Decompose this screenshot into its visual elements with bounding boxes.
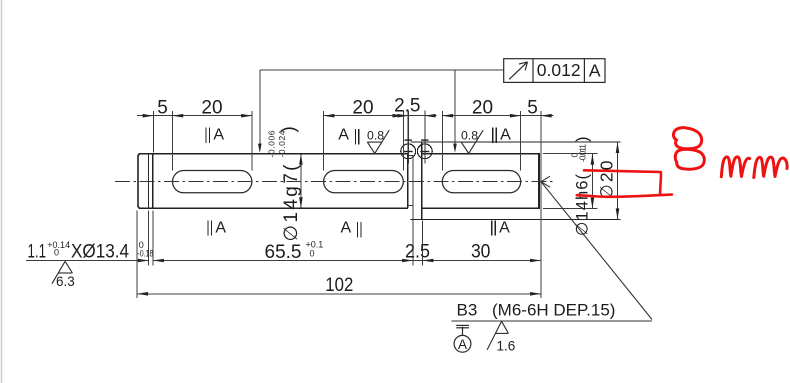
dia14h6 extension lines — [543, 154, 598, 209]
arrow dim5R right tip — [541, 114, 552, 118]
shaft right end face — [538, 154, 540, 208]
arrow dim20-2 right tip — [393, 114, 404, 118]
arrow dim65.5 left tip — [153, 259, 164, 263]
dia20 top arrowhead — [616, 142, 620, 153]
roughness 6.3 symbol — [52, 261, 72, 283]
30 dimension line — [423, 260, 541, 262]
dia14h6 top arrowhead — [591, 154, 595, 165]
svg-text:30: 30 — [471, 241, 491, 262]
center symbol circle 2 mid bar — [420, 151, 429, 153]
center symbol circle 2 stem — [424, 111, 426, 164]
shaft top outline right section — [422, 153, 540, 155]
arrow dim20-3 left tip — [442, 114, 453, 118]
dia20 arrowheads — [616, 142, 620, 219]
arrow dim2.5T right tip — [425, 114, 436, 118]
rotated label dia14g7 with tolerance — [267, 126, 303, 241]
red annotation bracket bottom stroke — [577, 195, 672, 197]
top dimension line y=115.7 — [137, 115, 554, 117]
top extension lines — [153, 111, 541, 298]
1.1 dim tail right — [153, 260, 164, 262]
svg-text:-0.006: -0.006 — [267, 130, 277, 157]
leader drop 2 arrowhead — [453, 144, 457, 153]
parallelism label bottom keyway2 — [340, 219, 360, 237]
parallelism label bottom keyway1 — [208, 219, 226, 236]
ext line x=172.5 — [172, 111, 174, 171]
svg-text:0.8: 0.8 — [367, 129, 384, 143]
svg-text:-0.011: -0.011 — [578, 144, 588, 162]
arrow dim20-3 right tip — [510, 114, 521, 118]
arrow dim2.5B/30 shared tip — [423, 259, 434, 263]
svg-text:2.5: 2.5 — [405, 242, 430, 263]
ext line x=442.3 — [441, 111, 443, 171]
middle relief groove recessed top — [408, 155, 413, 157]
svg-text:-0.18: -0.18 — [137, 248, 153, 258]
red handwritten mm — [721, 157, 750, 177]
leader drop arrowheads — [258, 144, 457, 153]
datum A symbol — [454, 325, 471, 352]
center symbol circle 2 — [417, 144, 432, 159]
ext x=412.9 — [412, 156, 414, 266]
svg-text:A: A — [338, 126, 349, 143]
feature control frame leader — [260, 70, 504, 151]
parallelism label top keyway3 — [493, 126, 511, 143]
centerline — [115, 181, 554, 183]
svg-text:20: 20 — [352, 97, 373, 118]
svg-text:2.5: 2.5 — [394, 96, 420, 117]
arrow dim20-1 right tip — [241, 114, 252, 118]
center symbol circle 1 mid bar — [404, 151, 413, 153]
top dimension arrowheads — [143, 114, 552, 118]
svg-text:5: 5 — [157, 97, 168, 118]
B3 leader arrow (open) at shaft end — [541, 176, 550, 187]
ext line x=153.4 — [152, 111, 154, 153]
svg-text:XØ13.4: XØ13.4 — [71, 241, 129, 262]
1.1 groove callout leader underline — [26, 260, 148, 262]
arrow dim30 right tip — [530, 259, 541, 263]
arrow dim5L right tip — [143, 114, 154, 118]
svg-text:0: 0 — [54, 247, 59, 257]
parallelism label top keyway1 — [206, 126, 224, 143]
center symbol circle 1 top bar — [405, 139, 412, 141]
parallelism label top keyway2 — [338, 126, 359, 144]
svg-text:1.1: 1.1 — [28, 241, 47, 262]
leader drop 1 — [259, 70, 261, 151]
svg-text:∅20: ∅20 — [597, 160, 617, 199]
arrow dim65.5/2.5B shared tip — [402, 259, 413, 263]
dia14h6 arrowheads — [591, 154, 595, 209]
leader drop 2 — [454, 70, 456, 151]
B3 underline — [451, 320, 652, 322]
shaft left end face — [138, 154, 140, 208]
keyway slot 2 — [324, 171, 404, 193]
svg-text:B3: B3 — [457, 300, 478, 319]
svg-text:∅14g7(: ∅14g7( — [281, 164, 302, 242]
dia14h6 bottom arrowhead — [591, 198, 595, 209]
65.5 dimension line — [153, 260, 413, 262]
svg-text:A: A — [499, 219, 510, 236]
svg-text:20: 20 — [201, 97, 222, 118]
svg-text:A: A — [215, 219, 226, 236]
ext line x=323.6 — [323, 111, 325, 171]
rotated label dia14h6 with tolerance — [570, 137, 592, 237]
svg-text:A: A — [213, 126, 224, 143]
dim 5 right segment — [521, 115, 554, 117]
left relief groove edge 2 — [152, 154, 154, 208]
runout arrow symbol — [509, 62, 527, 79]
ext x=422.6 — [422, 221, 424, 266]
leader drop 1 arrowhead — [258, 144, 262, 153]
dim 20 first keyway — [172, 115, 252, 117]
red handwritten 8 lower loop — [675, 149, 704, 169]
2.5 dimension line bottom — [398, 260, 433, 262]
center symbol circle 2 top bar — [421, 139, 428, 141]
long extension line x=540.9 — [540, 111, 542, 298]
roughness 0.8 symbol keyway2 — [367, 130, 389, 153]
B3 leader diagonal — [541, 182, 652, 320]
arrow dim20-2 left tip — [324, 114, 335, 118]
svg-text:5: 5 — [527, 97, 538, 118]
svg-text:A: A — [340, 219, 351, 236]
svg-text:0: 0 — [310, 249, 315, 259]
left relief groove edge 1 — [148, 154, 150, 208]
feature control frame (circular runout 0.012 A) — [504, 59, 605, 83]
middle relief groove recessed bottom — [408, 205, 413, 207]
dim 2.5 groove — [398, 115, 437, 117]
shaft top outline — [139, 153, 408, 155]
red annotation bracket right stroke — [659, 172, 662, 194]
arrow dim102 left tip — [137, 292, 148, 296]
dia 14g7 arrowheads — [299, 154, 303, 208]
dim 20 right keyway — [442, 115, 520, 117]
ext line x=520.7 — [520, 111, 522, 171]
svg-text:(M6-6H DEP.15): (M6-6H DEP.15) — [492, 300, 615, 319]
svg-text:∅14h6(: ∅14h6( — [574, 174, 592, 237]
red annotation bracket top stroke — [584, 170, 661, 172]
parallelism label bottom keyway3 — [492, 219, 510, 236]
dia20 bottom arrowhead — [616, 208, 620, 219]
shaft bottom outline — [139, 207, 408, 209]
ext x=137.2 for 102 — [136, 211, 138, 298]
arrow dim1.1 left tip — [138, 259, 149, 263]
bottom arrowheads — [137, 259, 541, 296]
bottom extension lines — [137, 156, 422, 298]
dia14g7 bottom arrowhead — [299, 197, 303, 208]
dia14h6 dimension line — [591, 154, 593, 209]
roughness 0.8 symbol keyway3 — [461, 130, 483, 153]
center symbol circle 1 stem — [407, 111, 409, 164]
keyway slot 1 — [173, 171, 252, 193]
center symbol circle 1 — [401, 144, 416, 159]
page left edge line — [1, 0, 3, 383]
svg-text:-0.024: -0.024 — [277, 130, 287, 157]
ext x=148.6 for 1.1 — [148, 211, 150, 266]
ext x=153.1 shared — [152, 211, 154, 266]
ext line x=251.9 — [251, 111, 253, 171]
svg-text:65.5: 65.5 — [265, 242, 302, 263]
shaft bottom outline right section — [422, 207, 540, 209]
hub left shoulder edge — [421, 142, 423, 219]
middle relief groove left edge — [407, 154, 409, 208]
svg-text:6.3: 6.3 — [56, 274, 75, 289]
svg-text:): ) — [574, 137, 592, 143]
dia20 dimension line — [617, 142, 619, 219]
svg-text:0.012: 0.012 — [537, 60, 581, 80]
dim 5 left segment — [137, 115, 173, 117]
svg-text:1.6: 1.6 — [497, 339, 516, 354]
arrow dim20-1 left tip — [172, 114, 183, 118]
svg-text:20: 20 — [472, 97, 493, 118]
svg-text:A: A — [500, 126, 511, 143]
arrow dim102 right tip — [530, 292, 541, 296]
svg-text:A: A — [589, 60, 601, 80]
dia14g7 top arrowhead — [299, 154, 303, 165]
svg-text:A: A — [458, 337, 467, 352]
dim 20 middle keyway — [324, 115, 404, 117]
ext line x=403.3 — [402, 111, 404, 171]
svg-text:): ) — [279, 126, 300, 132]
red handwritten 8 upper loop — [673, 128, 701, 149]
bottom dim row 1 y=260.5 — [26, 260, 541, 262]
svg-text:0.8: 0.8 — [461, 129, 478, 143]
arrow dim2.5T left tip — [397, 114, 408, 118]
phantom hub outline bottom (dia 20) — [411, 218, 621, 220]
roughness 1.6 symbol — [487, 321, 508, 350]
phantom hub outline top (dia 20) — [411, 141, 621, 143]
dia 14g7 dimension line — [300, 155, 302, 208]
keyway slot 3 — [442, 171, 520, 193]
svg-text:102: 102 — [325, 275, 353, 296]
top dimension labels — [157, 96, 538, 119]
bottom dim row 2 (102) — [137, 293, 541, 295]
